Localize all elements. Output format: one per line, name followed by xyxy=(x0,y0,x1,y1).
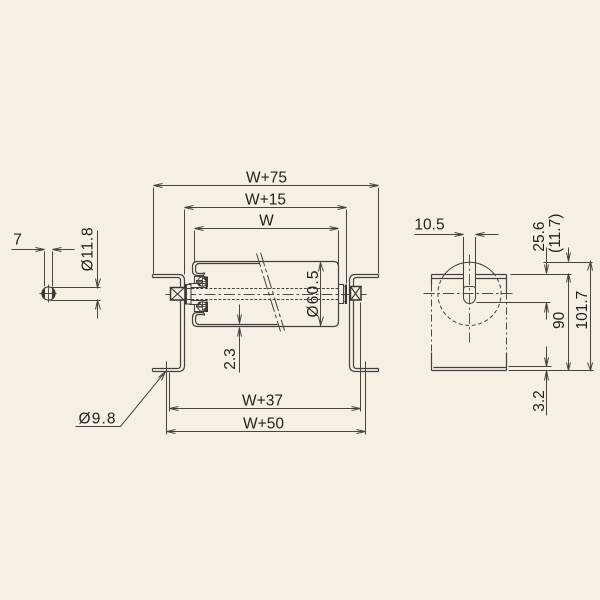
roller tube inner wall lines xyxy=(198,263,260,265)
dimension 2.3 xyxy=(238,305,242,373)
roller axis center line xyxy=(166,294,367,296)
dimension W+15 xyxy=(185,206,347,284)
left bearing lower ball xyxy=(198,302,208,312)
roller end curl top xyxy=(193,262,205,276)
svg-text:Ø9.8: Ø9.8 xyxy=(79,411,116,428)
dimension (11.7) xyxy=(567,248,571,262)
svg-text:3.2: 3.2 xyxy=(531,390,548,412)
svg-text:90: 90 xyxy=(551,311,568,329)
left shaft end square xyxy=(171,288,186,301)
svg-text:25.6: 25.6 xyxy=(531,222,548,252)
dimension W+37 xyxy=(170,303,361,412)
svg-text:7: 7 xyxy=(13,232,22,249)
svg-text:W+15: W+15 xyxy=(245,192,286,209)
shaft flat dark segments xyxy=(42,289,45,300)
roller circle hidden portion xyxy=(438,275,501,326)
shaft end circle xyxy=(42,287,55,300)
left bearing lower housing dark race xyxy=(206,302,209,313)
dimension W+75 xyxy=(154,184,379,274)
dimension W xyxy=(195,227,339,267)
dimension 25.6 xyxy=(545,248,549,320)
left frame channel xyxy=(153,275,185,372)
svg-text:W: W xyxy=(259,213,274,230)
dimension 101.7 xyxy=(588,262,593,371)
side view extension lines xyxy=(477,263,594,371)
left bearing upper housing dark race xyxy=(206,277,209,288)
dimension 90 xyxy=(567,274,571,371)
dimension W+50 xyxy=(167,362,366,435)
roller end curl bottom xyxy=(193,313,205,327)
roller tube body xyxy=(193,262,339,327)
label diameter 9.8 with leader xyxy=(76,372,166,427)
svg-text:W+75: W+75 xyxy=(246,170,287,187)
svg-text:(11.7): (11.7) xyxy=(547,214,564,253)
left bearing upper ball xyxy=(198,277,208,287)
right shaft end square xyxy=(351,287,362,301)
dimension 7 xyxy=(12,248,75,287)
dimension diameter 60.5 xyxy=(319,263,324,326)
dimension 3.2 xyxy=(545,347,549,416)
dimension 10.5 xyxy=(415,233,499,237)
svg-text:W+37: W+37 xyxy=(242,393,283,410)
side view center lines xyxy=(424,255,514,343)
side frame outline xyxy=(432,275,507,371)
svg-text:Ø11.8: Ø11.8 xyxy=(79,227,96,271)
shaft hidden (dashed) lines xyxy=(192,289,339,300)
svg-text:W+50: W+50 xyxy=(243,416,284,433)
right hub xyxy=(339,285,345,304)
roller circle visible arc xyxy=(445,262,495,274)
right frame channel xyxy=(350,275,379,372)
svg-text:10.5: 10.5 xyxy=(414,217,444,234)
right bearing cap xyxy=(345,285,347,305)
break lines (partial view) xyxy=(257,253,285,332)
svg-text:2.3: 2.3 xyxy=(222,348,239,370)
svg-text:Ø60.5: Ø60.5 xyxy=(305,271,322,318)
shaft slot xyxy=(464,237,476,304)
shaft flats chords xyxy=(45,289,53,300)
dimension diameter 11.8 xyxy=(51,231,101,319)
left bearing cap through frame xyxy=(185,285,192,305)
svg-text:101.7: 101.7 xyxy=(574,291,591,330)
shaft end center marks xyxy=(40,285,57,303)
